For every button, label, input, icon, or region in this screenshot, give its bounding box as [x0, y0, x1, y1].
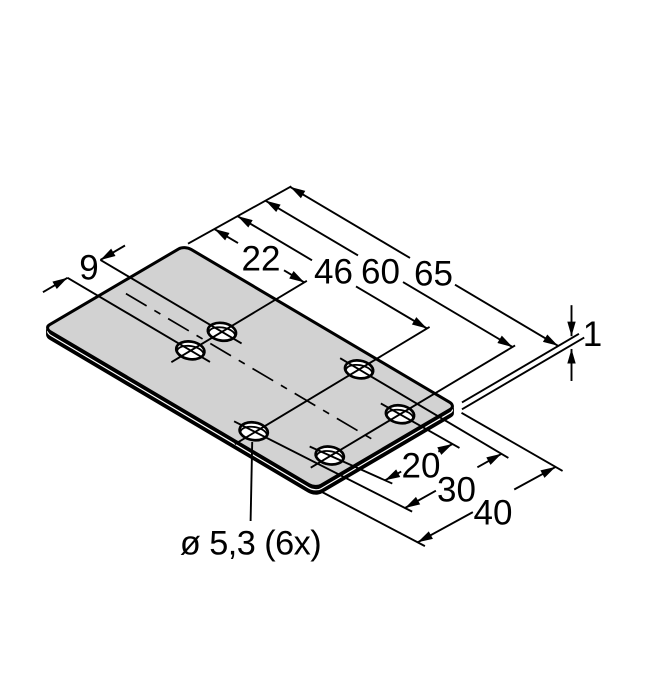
- svg-text:40: 40: [474, 493, 513, 532]
- svg-text:60: 60: [361, 252, 400, 291]
- svg-text:46: 46: [314, 252, 353, 291]
- svg-text:30: 30: [437, 470, 476, 509]
- svg-text:9: 9: [79, 248, 98, 287]
- svg-text:65: 65: [414, 254, 453, 293]
- svg-text:1: 1: [583, 315, 602, 354]
- svg-text:22: 22: [242, 239, 281, 278]
- svg-text:ø 5,3 (6x): ø 5,3 (6x): [180, 524, 321, 562]
- svg-text:20: 20: [402, 446, 441, 485]
